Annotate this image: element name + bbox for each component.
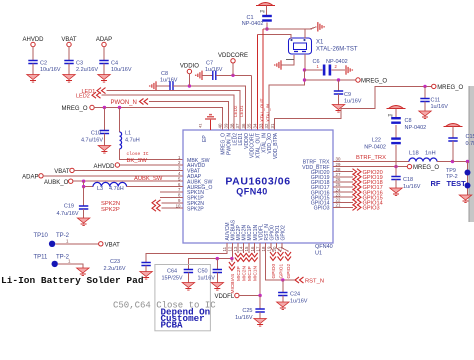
svg-text:MREG_O: MREG_O <box>361 79 387 85</box>
svg-text:12: 12 <box>228 246 233 251</box>
wire pin 12 MICBIAS to C64 C50 <box>188 243 232 270</box>
svg-text:1u/16V: 1u/16V <box>198 276 216 282</box>
crystal X1 XTAL-26M-TST <box>289 38 312 54</box>
wire ADAP to C4 <box>103 47 105 61</box>
wire GPIO3 stub <box>333 206 353 208</box>
svg-text:1nH: 1nH <box>425 150 436 156</box>
node C50 junction <box>216 257 219 260</box>
net label GPIO0 vertical <box>271 243 273 252</box>
node C6 junction <box>303 68 306 71</box>
svg-text:C18: C18 <box>403 177 413 183</box>
wire AUBK down to L3 <box>84 181 93 186</box>
jog mark below crystal <box>286 59 294 61</box>
node C18/L22 junction <box>394 165 397 168</box>
wire C23 to ground <box>145 266 147 272</box>
wire C10 to ground <box>103 134 105 146</box>
power terminal MREG_O top right 1 <box>356 78 360 82</box>
wire AUBK_O to pin 5 <box>73 180 183 182</box>
net label GPIO17 <box>353 184 362 190</box>
capacitor C6 NP-0402 <box>305 69 323 71</box>
svg-text:C3: C3 <box>76 61 83 67</box>
svg-text:C8: C8 <box>405 118 412 124</box>
svg-text:VBAT: VBAT <box>54 169 70 175</box>
wire C9 to ground <box>338 94 340 105</box>
wire MREG_O row to pin 40 <box>94 108 222 131</box>
capacitor C25 1u/16V <box>255 309 264 312</box>
svg-text:C19: C19 <box>64 203 74 209</box>
ground under C25 <box>254 319 266 324</box>
svg-text:XTAL_IN: XTAL_IN <box>265 104 270 122</box>
node C1/XTAL_IN junction <box>265 27 268 30</box>
svg-text:1u/16V: 1u/16V <box>235 315 253 321</box>
net label MIC2N vertical <box>243 243 245 253</box>
wire AHVDD to C2 <box>32 47 34 61</box>
ground under C64 <box>182 283 194 288</box>
capacitor C11 1u/16V <box>424 86 426 98</box>
svg-text:U1: U1 <box>315 251 322 257</box>
ground under C2 <box>27 75 39 80</box>
wire GPIO16 stub <box>333 191 353 193</box>
wire VDDFL to node <box>239 295 260 297</box>
svg-text:C2: C2 <box>40 61 47 67</box>
svg-text:LED2: LED2 <box>233 105 238 117</box>
svg-text:19: 19 <box>266 246 271 251</box>
svg-text:16: 16 <box>250 246 255 251</box>
svg-text:21: 21 <box>336 203 341 208</box>
capacitor C2 10u/16V <box>28 61 37 64</box>
net label MIC2P vertical <box>237 243 239 253</box>
wire GPIO20 stub <box>333 171 353 173</box>
ground under C4 <box>98 75 110 80</box>
svg-text:41: 41 <box>198 123 203 128</box>
svg-text:38: 38 <box>229 123 234 128</box>
net label MIC1N vertical <box>254 243 256 253</box>
node VDDIO junction <box>188 84 191 87</box>
ground left of C7 <box>201 71 203 80</box>
IC U1 PAU1603/06 QFN40 body <box>183 130 333 243</box>
wire shield to C1 <box>266 6 268 16</box>
ground under C50 <box>211 283 223 288</box>
wire VDD_XO pin 32 to C6 node <box>269 70 305 130</box>
wire TP11 to ground <box>58 264 83 268</box>
svg-text:18: 18 <box>261 246 266 251</box>
wire C18 to ground <box>395 180 397 189</box>
svg-text:34: 34 <box>253 123 258 128</box>
svg-text:VDDCORE: VDDCORE <box>218 53 248 59</box>
wire C7 to VDDCORE node <box>216 74 252 76</box>
capacitor C9 1u/16V <box>338 80 340 91</box>
power terminal VBAT at TP10 <box>99 242 103 246</box>
svg-text:17: 17 <box>255 246 260 251</box>
svg-text:C7: C7 <box>206 61 213 67</box>
svg-text:PWON_N: PWON_N <box>111 100 137 106</box>
svg-text:GPIO1: GPIO1 <box>279 264 285 279</box>
wire AHVDD to pin 2 <box>120 164 183 166</box>
capacitor C64 15P/25V <box>184 270 193 273</box>
svg-text:C9: C9 <box>344 92 351 98</box>
net label GPIO1 vertical <box>277 243 281 252</box>
capacitor C18 1u/16V <box>391 177 400 180</box>
capacitor C3 2.2u/16V <box>64 61 73 64</box>
wire LED1 to pin 37 <box>107 91 240 130</box>
net label GPIO18 <box>353 179 362 185</box>
capacitor C23 2.2u/16V <box>141 263 150 266</box>
ground under C23 <box>140 272 152 277</box>
svg-text:33: 33 <box>258 123 263 128</box>
ground under C24 <box>277 302 289 307</box>
svg-text:1u/16V: 1u/16V <box>403 184 421 190</box>
svg-text:QFN40: QFN40 <box>236 187 268 197</box>
svg-text:C10: C10 <box>91 131 101 137</box>
svg-text:XTAL-26M-TST: XTAL-26M-TST <box>316 47 358 53</box>
svg-text:C4: C4 <box>111 61 118 67</box>
svg-text:4.7u/16V: 4.7u/16V <box>56 211 78 217</box>
wire LED2 to pin 38 <box>102 95 235 130</box>
wire C8 to VDDIO node <box>173 85 223 87</box>
wire pin 17 VDDFL down <box>259 243 261 296</box>
svg-text:10: 10 <box>176 203 181 208</box>
wire SPK2P to pin 10 <box>162 207 184 209</box>
wire GPIO15 stub <box>333 196 353 198</box>
svg-text:TEST: TEST <box>447 179 467 188</box>
svg-text:C8: C8 <box>161 71 168 77</box>
net label GPIO3 <box>353 204 362 210</box>
wire C24 to ground <box>282 296 284 303</box>
svg-text:13: 13 <box>233 246 238 251</box>
svg-text:AHVDD: AHVDD <box>93 164 115 170</box>
svg-text:MIC2P: MIC2P <box>236 266 242 281</box>
svg-text:C15: C15 <box>466 134 474 140</box>
svg-text:MICBIAS: MICBIAS <box>230 274 236 294</box>
ground right of crystal top <box>310 27 317 29</box>
svg-text:RST_N: RST_N <box>305 278 324 284</box>
guideline box around C64 C50 <box>155 265 211 331</box>
ground right of C6 <box>345 65 347 74</box>
node C11 junction <box>423 85 426 88</box>
svg-text:L3: L3 <box>97 186 103 192</box>
svg-text:35: 35 <box>247 123 252 128</box>
svg-text:LED1: LED1 <box>239 105 244 117</box>
svg-text:VBAT: VBAT <box>105 242 121 248</box>
node C9 junction <box>337 78 340 81</box>
wire crystal left pin to XTAL_OUT <box>257 35 291 39</box>
svg-text:MREG_O: MREG_O <box>437 85 463 91</box>
capacitor C7 1u/16V <box>202 74 213 76</box>
svg-text:GPIO3: GPIO3 <box>314 206 330 212</box>
wire L18 to antenna node <box>437 161 469 163</box>
svg-text:1u/16V: 1u/16V <box>344 99 362 105</box>
wire GPIO17 stub <box>333 186 353 188</box>
svg-text:1u/16V: 1u/16V <box>160 78 178 84</box>
node L1 junction <box>118 106 121 109</box>
svg-text:TP11: TP11 <box>34 255 49 261</box>
wire AUBK to C19 <box>83 187 85 206</box>
pin 8 SPK1P stub <box>160 196 183 198</box>
svg-text:GPIO0: GPIO0 <box>271 264 277 279</box>
svg-text:C11: C11 <box>431 98 441 104</box>
wire VDDFL node to C25 <box>259 296 261 310</box>
svg-text:VDDFL: VDDFL <box>215 294 235 300</box>
svg-text:Li-Ion Battery Solder Pad: Li-Ion Battery Solder Pad <box>1 275 144 286</box>
ground under TP11 <box>77 268 89 273</box>
off-page bar right edge <box>469 86 474 222</box>
wire L22 down to VDD_BTRF row <box>395 145 397 167</box>
svg-text:TP9: TP9 <box>446 168 456 174</box>
node antenna junction 1 <box>451 160 454 163</box>
svg-text:32: 32 <box>264 123 269 128</box>
svg-text:0.7P: 0.7P <box>466 141 474 147</box>
svg-text:MREG_O: MREG_O <box>413 165 439 171</box>
net label GPIO16 <box>353 189 362 195</box>
svg-text:40: 40 <box>218 123 223 128</box>
power terminal MREG_O right <box>407 164 411 168</box>
svg-text:VDD_BTPA: VDD_BTPA <box>273 132 279 159</box>
svg-text:NP-0402: NP-0402 <box>242 21 264 27</box>
svg-text:ADAP: ADAP <box>22 175 38 181</box>
svg-text:15: 15 <box>244 246 249 251</box>
net label GPIO19 <box>353 174 362 180</box>
capacitor C8 1u/16V <box>156 85 170 87</box>
svg-text:GPIO2: GPIO2 <box>280 225 286 241</box>
svg-text:L1: L1 <box>125 131 131 137</box>
wire PWON_N to pin 39 <box>149 102 228 131</box>
capacitor C19 4.7u/16V <box>79 206 88 209</box>
node antenna junction 2 <box>466 160 469 163</box>
svg-text:BTRF_TRX: BTRF_TRX <box>356 155 386 161</box>
svg-text:BK_SW: BK_SW <box>127 158 148 164</box>
inductor L18 1nH <box>409 158 437 161</box>
wire C11 to ground <box>424 102 426 112</box>
ground under C18 <box>390 188 402 193</box>
capacitor C15 0.7P <box>452 127 454 139</box>
wire TP10 to VBAT <box>55 243 98 245</box>
wire C25 to ground <box>259 312 261 319</box>
svg-text:C23: C23 <box>110 259 120 265</box>
svg-text:1u/16V: 1u/16V <box>205 67 223 73</box>
wire VDDIO row to pin 36 <box>223 86 246 130</box>
svg-text:4.7uH: 4.7uH <box>109 186 124 192</box>
svg-text:14: 14 <box>239 246 244 251</box>
wire C64 to ground <box>187 273 189 283</box>
svg-text:LED2: LED2 <box>76 94 90 100</box>
svg-text:11: 11 <box>222 246 227 251</box>
wire XTAL_OUT to pin 34 <box>256 35 258 131</box>
svg-text:15P/25V: 15P/25V <box>162 276 183 282</box>
power terminal MREG_O top right 2 <box>432 84 436 88</box>
wire pin 30 BTRF_TRX to L18 <box>333 161 409 163</box>
net label GPIO14 <box>353 199 362 205</box>
svg-text:36: 36 <box>241 123 246 128</box>
net label RST_N <box>295 277 304 283</box>
svg-text:close IC: close IC <box>127 151 149 157</box>
wire C4 to ground <box>103 64 105 75</box>
wire C3 to ground <box>68 64 70 75</box>
node VDDFL junction <box>258 294 261 297</box>
svg-text:4.7u/16V: 4.7u/16V <box>81 138 103 144</box>
ground under C11 <box>419 111 431 116</box>
node MICBIAS junction <box>230 257 233 260</box>
svg-text:NP-0402: NP-0402 <box>364 145 386 151</box>
inductor L22 NP-0402 <box>391 137 401 139</box>
shield symbol above C1 <box>258 3 273 6</box>
wire C8 to L22 <box>395 125 397 137</box>
wire C50 to ground <box>216 273 218 283</box>
svg-text:MIC1P: MIC1P <box>247 266 253 281</box>
svg-text:C50: C50 <box>198 269 208 275</box>
svg-text:39: 39 <box>224 123 229 128</box>
svg-text:AUBK_O: AUBK_O <box>44 180 69 186</box>
wire crystal right pin up <box>304 29 306 39</box>
pin EP exposed pad <box>210 120 212 131</box>
net label GPIO2 vertical <box>282 243 288 252</box>
svg-text:NP-0402: NP-0402 <box>326 59 348 65</box>
svg-text:Pe: Pe <box>388 113 394 118</box>
svg-text:GPIO3: GPIO3 <box>363 206 380 212</box>
capacitor C1 NP-0402 <box>262 15 272 17</box>
wire L1 to pin 1 MBK_SW <box>120 149 184 160</box>
svg-text:10u/16V: 10u/16V <box>40 67 61 73</box>
wire GPIO14 stub <box>333 201 353 203</box>
svg-text:31: 31 <box>270 123 275 128</box>
svg-text:VDDIO: VDDIO <box>180 64 199 70</box>
svg-text:1u/16V: 1u/16V <box>290 298 308 304</box>
node C24 junction <box>281 278 284 281</box>
capacitor C8 NP-0402 right <box>395 109 397 118</box>
node AUBK junction B <box>82 185 85 188</box>
svg-text:X1: X1 <box>316 40 324 46</box>
shield symbol above C8 right <box>389 106 404 109</box>
svg-text:MREG_O: MREG_O <box>61 106 87 112</box>
svg-text:L22: L22 <box>372 138 381 144</box>
svg-text:MIC1N: MIC1N <box>253 266 259 281</box>
wire crystal right pin down to C6 node <box>304 54 306 70</box>
wire VBAT to C3 <box>68 47 70 61</box>
svg-text:4.7uH: 4.7uH <box>125 138 140 144</box>
wire pin 29 VDD_BTRF to MREG_O <box>333 166 407 168</box>
wire MREG_O 2 row to VDD_BTPA pin 31 <box>275 86 432 130</box>
wire C15 to antenna node <box>452 141 454 162</box>
capacitor C50 1u/16V <box>213 270 222 273</box>
wire XTAL_IN to pin 33 <box>262 29 264 130</box>
net label GPIO20 <box>353 169 362 175</box>
wire ADAP to pin 4 <box>43 175 183 177</box>
inductor L3 4.7uH <box>93 182 127 186</box>
svg-text:C24: C24 <box>290 291 300 297</box>
svg-text:AUBK_SW: AUBK_SW <box>134 176 163 182</box>
svg-text:1u/16V: 1u/16V <box>431 104 449 110</box>
svg-text:C64: C64 <box>167 269 177 275</box>
ground left of crystal bottom <box>280 60 282 69</box>
shield symbol above C15 <box>446 124 461 127</box>
capacitor C4 10u/16V <box>99 61 108 64</box>
wire pin 11 AUVCM to C23 <box>146 243 227 263</box>
wire MREG_O top right row <box>305 79 356 81</box>
svg-text:37: 37 <box>235 123 240 128</box>
wire C1 to node XTAL_IN <box>266 23 268 30</box>
wire GPIO18 stub <box>333 181 353 183</box>
svg-text:2.2u/16V: 2.2u/16V <box>104 266 126 272</box>
ground left of C8 <box>155 81 157 90</box>
wire junction to C18 <box>395 167 397 177</box>
svg-text:L18: L18 <box>409 150 419 156</box>
wire C19 to ground <box>83 209 85 218</box>
pin 7 SPK1N stub <box>160 191 183 193</box>
svg-text:GPIO2: GPIO2 <box>286 264 292 279</box>
ground under TP9 <box>459 195 471 200</box>
wire C50 branch <box>216 259 218 270</box>
wire XTAL_IN horizontal run <box>263 28 312 30</box>
ground under C19 <box>77 218 89 223</box>
svg-text:MIC2N: MIC2N <box>242 266 248 281</box>
svg-text:QFN40: QFN40 <box>315 244 333 250</box>
node AUBK junction A <box>82 180 85 183</box>
svg-text:Pe: Pe <box>260 8 266 13</box>
svg-text:PCBA: PCBA <box>161 319 184 330</box>
wire VDDCORE down <box>232 63 234 75</box>
wire GPIO19 stub <box>333 176 353 178</box>
wire pin 18 RST_N down <box>266 243 295 280</box>
svg-text:SPK2P: SPK2P <box>187 206 204 212</box>
net label GPIO15 <box>353 194 362 200</box>
svg-text:10u/16V: 10u/16V <box>111 67 132 73</box>
inductor L1 4.7uH <box>119 108 121 133</box>
wire VBAT to pin 3 <box>74 169 183 171</box>
wire VDDIO down <box>188 74 190 86</box>
svg-text:SPK2P: SPK2P <box>101 207 120 213</box>
node C10 junction <box>103 106 106 109</box>
ground under C9 <box>332 105 344 110</box>
svg-text:TP10: TP10 <box>34 233 49 239</box>
wire L3 to pin 6 AUREG_O <box>127 186 183 188</box>
svg-text:NP-0402: NP-0402 <box>405 125 427 131</box>
svg-text:2.2u/16V: 2.2u/16V <box>76 67 98 73</box>
wire C2 to ground <box>32 64 34 75</box>
svg-text:RF: RF <box>431 179 441 188</box>
svg-text:C25: C25 <box>242 308 252 314</box>
capacitor C10 4.7u/16V <box>103 108 105 131</box>
net label MIC1P vertical <box>248 243 250 253</box>
ground under C3 <box>63 75 75 80</box>
node MREG top-right branch <box>303 78 306 81</box>
wire C24 branch <box>282 280 284 293</box>
net label MICBIAS vertical <box>231 259 233 262</box>
wire C6 to ground <box>332 69 346 71</box>
node VDDCORE junction <box>231 74 234 77</box>
wire SPK2N to pin 9 <box>162 202 184 204</box>
svg-text:EP: EP <box>202 135 208 142</box>
wire VDDCORE row to pin 35 <box>251 75 253 130</box>
capacitor C24 1u/16V <box>278 293 287 296</box>
ground under C10 <box>98 146 110 151</box>
